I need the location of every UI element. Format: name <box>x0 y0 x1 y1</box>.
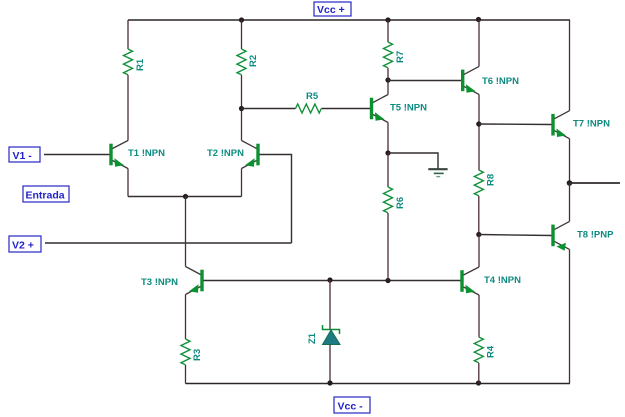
transistor T4 <box>460 270 463 292</box>
node bottom rail / R4 <box>476 380 481 385</box>
svg-text:R8: R8 <box>486 174 497 186</box>
resistor R5 <box>296 104 322 113</box>
transistor T6 <box>461 70 464 92</box>
resistor R6 <box>384 187 393 213</box>
wire T8 base <box>479 235 552 236</box>
svg-text:R4: R4 <box>486 345 497 358</box>
svg-text:R3: R3 <box>192 349 203 361</box>
wire T6 emitter down to R8 <box>478 94 480 170</box>
resistor R1 <box>124 49 133 75</box>
svg-text:T3 !NPN: T3 !NPN <box>141 277 178 288</box>
svg-text:R6: R6 <box>395 197 406 209</box>
wire R7 top lead <box>387 20 389 42</box>
wire T4 collector up to node <box>478 235 480 268</box>
svg-text:Vcc +: Vcc + <box>317 4 345 16</box>
wire R1 top lead <box>127 20 129 49</box>
wire T2 emitter down <box>241 169 243 197</box>
wire Z1 top lead <box>329 280 331 329</box>
wire T3 collector up to common node <box>185 197 187 267</box>
wire T7 emitter down to output node <box>569 139 571 183</box>
node R7 bottom / T6 base <box>385 77 390 82</box>
svg-text:T8 !PNP: T8 !PNP <box>577 230 614 241</box>
wire T2 base right and down to V2+ line <box>260 155 292 244</box>
wire T6 base <box>388 80 461 82</box>
Entrada label box <box>23 186 69 202</box>
svg-text:V1 -: V1 - <box>13 150 33 162</box>
wire T7 base <box>479 123 552 126</box>
wire bottom rail Vcc- <box>186 383 571 385</box>
wire R5 left lead <box>242 108 296 110</box>
node R8 bottom / T4 collector / T8 base <box>476 232 481 237</box>
wire T3 emitter down to R3 <box>185 295 187 340</box>
svg-text:T1 !NPN: T1 !NPN <box>128 148 165 159</box>
svg-text:R2: R2 <box>248 55 259 67</box>
wire T6 collector to top rail <box>478 20 480 67</box>
wire T5 emitter down <box>387 123 389 154</box>
transistor T5 <box>370 98 373 120</box>
zener diode Z1 <box>323 325 340 334</box>
wire V2+ line <box>45 242 292 244</box>
node R2 / R5 branch <box>239 106 244 111</box>
wire V1- to T1 base <box>44 154 110 156</box>
wire R6 bottom lead <box>387 213 389 281</box>
node bottom rail / Z1 <box>327 380 332 385</box>
transistor T2 (mirrored) <box>256 144 259 166</box>
wire R2 top lead <box>241 20 243 49</box>
svg-text:Vcc -: Vcc - <box>338 401 364 413</box>
V1- label box <box>9 147 40 162</box>
wire T1 emitter down <box>127 169 129 197</box>
node base line / Z1 <box>327 277 332 282</box>
node base line / R6 <box>385 278 390 283</box>
wire common emitter rail <box>128 196 242 198</box>
svg-text:Z1: Z1 <box>307 332 318 344</box>
wire T3 base to T4 base <box>204 280 461 282</box>
wire output <box>570 182 621 184</box>
svg-text:R5: R5 <box>306 91 319 102</box>
transistor T1 <box>109 144 112 166</box>
wire R7 bottom lead <box>387 68 389 80</box>
wire T8 emitter down to bottom rail <box>569 249 571 383</box>
node top rail / R7 <box>385 17 390 22</box>
node T6 emitter / T7 base <box>476 121 481 126</box>
V2+ label box <box>9 236 41 252</box>
node top rail / R2 <box>239 17 244 22</box>
resistor R4 <box>474 337 483 363</box>
transistor T8 (PNP) <box>551 225 554 247</box>
node T5 emitter / ground branch <box>385 150 390 155</box>
resistor R2 <box>237 49 246 75</box>
wire R1 bottom to T1 collector <box>127 75 129 141</box>
svg-text:Entrada: Entrada <box>26 190 65 202</box>
resistor R8 <box>474 170 483 196</box>
svg-text:V2 +: V2 + <box>12 240 34 252</box>
wire T5 collector up to R7 node <box>387 80 389 95</box>
wire T7 collector to top rail <box>569 20 572 111</box>
Vcc+ label box <box>314 2 351 16</box>
wire R8 bottom lead <box>478 196 480 235</box>
svg-text:T5 !NPN: T5 !NPN <box>390 103 427 114</box>
wire T8 collector up to output node <box>569 183 571 221</box>
resistor R3 <box>181 339 190 365</box>
node common emitters / T3 collector <box>183 194 188 199</box>
node top rail / T6 collector <box>476 17 481 22</box>
wire top rail Vcc+ <box>128 19 570 21</box>
wire T4 emitter down to R4 <box>478 295 480 337</box>
wire R4 bottom lead <box>478 363 480 384</box>
node output <box>567 180 573 186</box>
ground <box>428 168 447 170</box>
wire Z1 bottom lead <box>329 345 331 384</box>
svg-text:R7: R7 <box>395 51 406 63</box>
wire R2 bottom to node <box>241 75 243 141</box>
resistor R7 <box>384 42 393 68</box>
wire R6 top lead <box>387 153 389 187</box>
wire R3 bottom to rail <box>185 365 187 384</box>
svg-text:T4 !NPN: T4 !NPN <box>484 275 521 286</box>
svg-text:T7 !NPN: T7 !NPN <box>573 119 610 130</box>
svg-text:T2 !NPN: T2 !NPN <box>207 148 244 159</box>
wire to ground <box>388 153 438 170</box>
wire R5 right lead to T5 base <box>322 108 371 110</box>
transistor T7 <box>551 114 554 136</box>
transistor T3 (mirrored) <box>200 270 203 292</box>
Vcc- label box <box>334 397 370 413</box>
svg-text:T6 !NPN: T6 !NPN <box>482 76 519 87</box>
svg-text:R1: R1 <box>135 58 146 71</box>
